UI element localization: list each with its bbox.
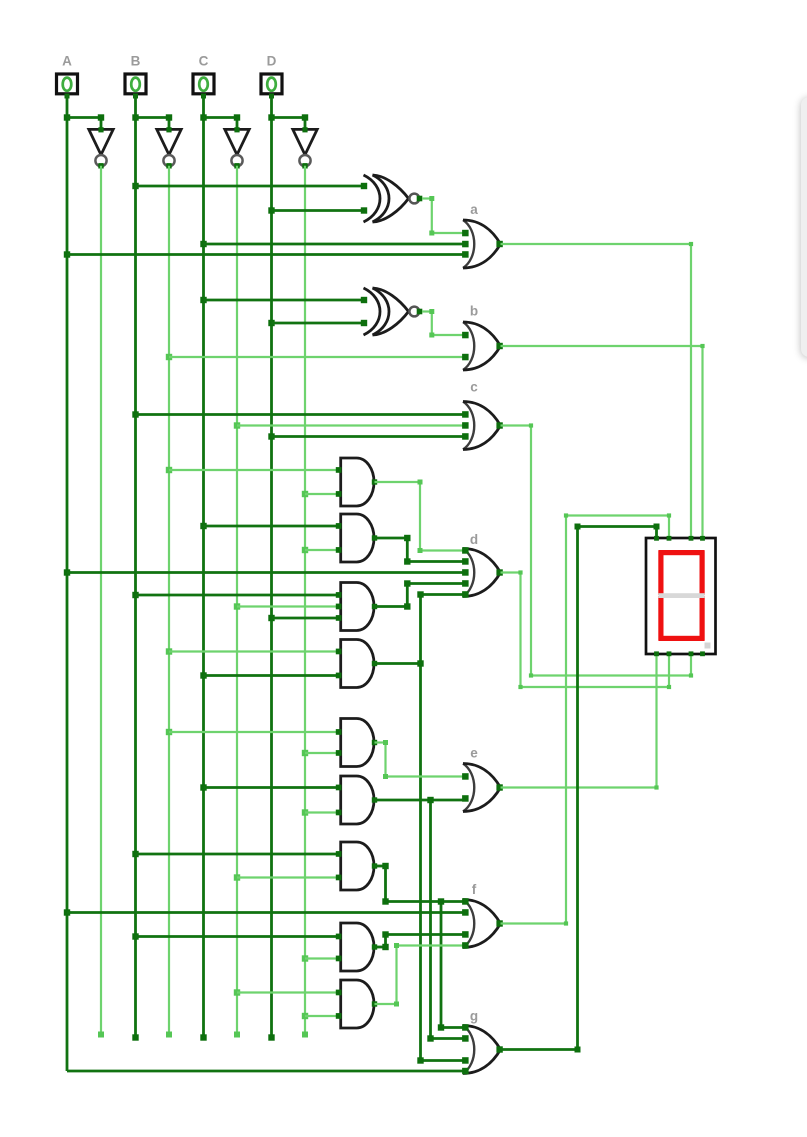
collapsed side panel edge <box>801 97 807 357</box>
and gate G7 (B.notC) <box>336 842 377 890</box>
junction C / XNOR2 input <box>200 297 206 303</box>
xnor gate U1 (A xnor B for seg a) <box>364 175 423 222</box>
or gate b <box>462 322 503 370</box>
and gate G8 (B.notD) <box>336 923 377 971</box>
wire OR-f output to display seg f <box>501 513 672 925</box>
wire net B vertical rail <box>134 96 137 1038</box>
junction notD / AND9 input <box>302 1013 308 1019</box>
wire AND5 output to OR-e input 1 <box>375 740 465 779</box>
wire B to NOT-B input <box>136 114 173 130</box>
wire XNOR1 output to OR-a input 1 <box>422 196 465 236</box>
svg-text:f: f <box>472 882 477 897</box>
input pin B (value 0) <box>125 74 146 99</box>
wire notB to AND5 input 1 <box>169 731 341 733</box>
wire C to OR-a input 2 <box>204 243 465 246</box>
pin XNOR1 in1 <box>361 183 367 189</box>
wire A to OR-f input 2 <box>67 911 465 914</box>
junction notC / AND7 input <box>234 874 240 880</box>
svg-text:C: C <box>199 54 209 69</box>
wire net notA vertical rail <box>100 166 102 1035</box>
svg-text:g: g <box>470 1009 478 1024</box>
junction notD / AND8 input <box>302 955 308 961</box>
wire end net B <box>132 1034 138 1040</box>
junction D / XNOR1 input <box>268 207 274 213</box>
wire XNOR2 output to OR-b input 1 <box>422 309 465 338</box>
and gate G1 (notB.notD) <box>336 458 377 506</box>
wire AND8 output to OR-f input 4 <box>375 931 465 950</box>
wire A to OR-d input 3 <box>67 571 465 574</box>
pin XNOR2 in2 <box>361 320 367 326</box>
wire AND9 output to OR-f input 5 <box>375 943 465 1007</box>
wire notD to AND9 input 2 <box>305 1015 341 1017</box>
wire AND1 output to OR-d input 1 <box>375 480 465 554</box>
junction D / AND3 input <box>268 615 274 621</box>
wire net C vertical rail <box>202 96 205 1038</box>
junction AND6 output tee <box>427 797 433 803</box>
wire end net notD <box>302 1032 308 1038</box>
wire notD to AND1 input 2 <box>305 493 341 495</box>
wire B to AND7 input 1 <box>136 853 341 856</box>
junction notC / AND9 input <box>234 989 240 995</box>
wire AND7 output to OR-f input 1 <box>375 863 465 905</box>
wire OR-g output to display seg g <box>501 524 660 1053</box>
wire notC to OR-c input 2 <box>237 424 465 426</box>
wire OR-c output to display seg c <box>501 423 694 677</box>
wire OR-e output to display seg e <box>501 654 659 790</box>
junction AND7 output tee <box>438 898 444 904</box>
svg-text:D: D <box>267 54 277 69</box>
wire D to OR-c input 3 <box>272 435 465 438</box>
wire AND6 output branch to OR-g input 2 <box>427 800 464 1042</box>
junction D / inverter branch <box>268 114 274 120</box>
and gate G4 (notB.C) <box>336 640 377 688</box>
and gate G3 (B.notC.D) <box>336 583 377 631</box>
wire notB to AND4 input 1 <box>169 650 341 652</box>
inverter NOT-C <box>225 127 249 168</box>
wire D to NOT-D input <box>272 114 309 130</box>
junction notD / AND1 input <box>302 491 308 497</box>
wire notD to AND5 input 2 <box>305 752 341 754</box>
and gate G6 (C.notD) <box>336 776 377 824</box>
junction B / AND8 input <box>132 933 138 939</box>
wire net notD vertical rail <box>304 166 306 1035</box>
junction C / AND6 input <box>200 784 206 790</box>
input pin D (value 0) <box>261 74 282 99</box>
wire net D vertical rail <box>270 96 273 1038</box>
junction notB / AND5 input <box>166 729 172 735</box>
junction A / inverter branch <box>64 114 70 120</box>
wire B to AND3 input 1 <box>136 594 341 597</box>
wire OR-b output to display seg b <box>501 344 705 538</box>
wire D to AND3 input 3 <box>272 617 341 620</box>
junction notC / AND3 input <box>234 603 240 609</box>
inverter NOT-D <box>293 127 317 168</box>
junction C / OR-a input <box>200 241 206 247</box>
junction B / OR-c input <box>132 411 138 417</box>
wire A to OR-a input 3 <box>67 253 465 256</box>
or gate g <box>462 1024 503 1074</box>
wire AND4 output to vertical bus <box>375 662 421 665</box>
wire end net notB <box>166 1032 172 1038</box>
7-segment display U3 showing 0 <box>646 536 716 656</box>
pin XNOR2 in1 <box>361 297 367 303</box>
wire AND4 bus vertical (OR-d in5 / OR-g in4) <box>417 591 464 1063</box>
wire C to AND4 input 2 <box>204 674 341 677</box>
wire notD to AND2 input 2 <box>305 549 341 551</box>
svg-text:e: e <box>470 746 478 761</box>
wire notB to AND1 input 1 <box>169 469 341 471</box>
junction A / OR-d input <box>64 569 70 575</box>
input pin A (value 0) <box>57 74 78 99</box>
xnor gate U2 (C xnor D for seg b) <box>364 288 423 335</box>
junction A / OR-a input <box>64 251 70 257</box>
wire B to XNOR1 input 1 <box>136 185 366 188</box>
wire AND6 output to OR-e input 2 <box>375 799 465 802</box>
junction A / OR-f input <box>64 909 70 915</box>
wire net notB vertical rail <box>168 166 170 1035</box>
wire A to OR-g input 5 <box>67 1070 465 1073</box>
junction notC / OR-c input <box>234 422 240 428</box>
junction C / inverter branch <box>200 114 206 120</box>
svg-text:d: d <box>470 532 478 547</box>
junction C / AND4 input <box>200 672 206 678</box>
pin XNOR1 in2 <box>361 207 367 213</box>
wire notD to AND8 input 2 <box>305 957 341 959</box>
wire B to AND8 input 1 <box>136 935 341 938</box>
svg-text:A: A <box>62 54 72 69</box>
svg-text:b: b <box>470 304 478 319</box>
inverter NOT-A <box>89 127 113 168</box>
svg-text:B: B <box>131 54 141 69</box>
wire B to OR-c input 1 <box>136 413 465 416</box>
wire notC to AND9 input 1 <box>237 991 341 993</box>
or gate f <box>462 898 503 949</box>
wire D to XNOR1 input 2 <box>272 209 366 212</box>
wire net notC vertical rail <box>236 166 238 1035</box>
or gate a <box>462 220 503 268</box>
junction notD / AND6 input <box>302 809 308 815</box>
junction notD / AND5 input <box>302 750 308 756</box>
junction AND4 output tee <box>417 660 423 666</box>
junction D / XNOR2 input <box>268 320 274 326</box>
junction C / AND2 input <box>200 523 206 529</box>
junction notB / AND4 input <box>166 648 172 654</box>
wire D to XNOR2 input 2 <box>272 322 366 325</box>
junction B / AND3 input <box>132 592 138 598</box>
junction B / inverter branch <box>132 114 138 120</box>
wire OR-d output to display seg d <box>501 570 672 689</box>
wire C to AND2 input 1 <box>204 525 341 528</box>
and gate G5 (notB.notD) <box>336 719 377 767</box>
wire C to AND6 input 1 <box>204 786 341 789</box>
junction D / OR-c input <box>268 433 274 439</box>
or gate d <box>462 547 503 598</box>
wire end net D <box>268 1034 274 1040</box>
junction B / XNOR1 input <box>132 183 138 189</box>
and gate G2 (C.notD) <box>336 514 377 562</box>
svg-text:c: c <box>470 380 478 395</box>
junction B / AND7 input <box>132 851 138 857</box>
input pin C (value 0) <box>193 74 214 99</box>
wire net A vertical rail <box>66 96 69 1072</box>
wire AND7 output branch to OR-g input 1 <box>438 902 465 1031</box>
wire end net notC <box>234 1032 240 1038</box>
or gate c <box>462 402 503 450</box>
svg-text:a: a <box>470 202 478 217</box>
wire AND2 output to OR-d input 2 <box>375 535 465 565</box>
or gate e <box>462 764 503 812</box>
wire notC to AND7 input 2 <box>237 876 341 878</box>
wire C to NOT-C input <box>204 114 241 130</box>
wire A to NOT-A input <box>67 114 104 130</box>
wire end net notA <box>98 1032 104 1038</box>
junction notD / AND2 input <box>302 547 308 553</box>
wire notD to AND6 input 2 <box>305 811 341 813</box>
junction notB / AND1 input <box>166 467 172 473</box>
wire OR-a output to display seg a <box>501 242 694 538</box>
and gate G9 (notC.notD) <box>336 980 377 1028</box>
wire end net C <box>200 1034 206 1040</box>
wire notC to AND3 input 2 <box>237 605 341 607</box>
junction notB / OR-b input <box>166 354 172 360</box>
wire notB to OR-b input 2 <box>169 356 465 358</box>
wire AND3 output to OR-d input 4 <box>375 580 465 609</box>
inverter NOT-B <box>157 127 181 168</box>
wire C to XNOR2 input 1 <box>204 299 366 302</box>
